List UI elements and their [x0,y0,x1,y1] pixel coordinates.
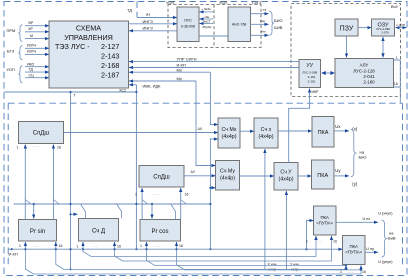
wire ИКР [289,89,319,163]
wire СЦ [25,77,49,79]
svg-text:(ВуЗн): (ВуЗн) [203,25,212,29]
wire ТД [25,71,49,73]
svg-text:АЛУ: АЛУ [360,63,369,68]
wire Т branch into Сч Д left [71,213,78,215]
wire АЛУ to ОЗУ [382,37,384,58]
UOP dashed box (top middle) [168,5,261,48]
svg-text:БИВ: БИВ [274,25,283,30]
wire ИЗГН 2 [25,53,49,55]
svg-text:Хин: Хин [260,19,266,23]
svg-text:2-162: 2-162 [308,75,316,79]
svg-text:1: 1 [19,244,21,248]
svg-text:(4х4р): (4х4р) [220,176,235,182]
svg-text:Ux: Ux [335,124,341,129]
svg-text:СхГЗ: СхГЗ [252,0,262,5]
svg-text:Уин: Уин [261,30,266,34]
svg-text:. . . .: . . . . [152,192,159,196]
СпДш1 pin labels [17,144,61,150]
ПКА ПУПА 2 pin labels [340,269,366,274]
lower section dashed frame [8,103,402,268]
node ТД top feedback [127,2,137,18]
bus joins from Pr cos pins [147,249,347,265]
svg-text:БГЗ: БГЗ [7,48,15,53]
svg-text:«ПУПА»: «ПУПА» [345,250,362,255]
block ПКА 1 [312,117,334,148]
svg-text:2-168: 2-168 [101,61,119,70]
Pr sin bottom pins from И КП [19,242,62,250]
svg-text:ЛУС-2-098: ЛУС-2-098 [302,71,317,75]
svg-text:U (хнул): U (хнул) [378,212,393,216]
bus track from Pr sin pin1 to ПКА ПУПА2 pin16 [25,249,361,274]
svg-text:16: 16 [179,244,183,248]
АЛУ right pins 1..16 [394,56,401,103]
node У нач коор [290,263,300,272]
wire ΔХ [64,127,219,133]
wire ПЗУ to ОЗУ [358,27,372,29]
wire ΔУ [184,170,216,176]
svg-text:(4х4р): (4х4р) [221,134,236,140]
svg-text:16: 16 [362,270,366,274]
wire Pr cos to СпДш2 pin1 [141,188,143,220]
svg-text:БИО: БИО [274,18,283,23]
svg-text:Pr cos: Pr cos [151,229,168,235]
svg-text:(4х4р): (4х4р) [258,134,273,140]
wire И КП bottom line [8,248,342,256]
wire И КП [129,62,299,67]
wire bus to Pr sin top [33,204,35,219]
wire diagonal joins from СпДш1 risers [25,200,31,205]
block ПКА 2 [312,160,335,189]
wire riser to Сч Мх and Сч Му [210,139,218,249]
svg-text:БиО: БиО [359,155,367,160]
svg-text:2-180: 2-180 [363,80,375,85]
wire Мх vertical to Сч Мх [210,72,218,124]
svg-text:2-143: 2-143 [101,52,119,61]
Pr cos bottom pins from И КП [140,242,183,250]
svg-text:ΔУ: ΔУ [191,170,196,174]
wire Сч Мх to Сч х [240,130,254,132]
bus track from Сч Д pin1 to ПКА ПУПА1 pin1 [83,236,316,257]
svg-text:У нач.: У нач. [290,263,300,267]
wire Мх [129,67,210,72]
svg-text:U пх: U пх [363,217,371,221]
wire Сч у to ПКА 2 [298,175,312,177]
wire ИЗГН 1 [25,47,49,49]
wire to ПКА ПУПА 1 [307,221,314,250]
svg-text:16: 16 [333,240,337,244]
block ПКА ПУПА 2 [343,236,366,265]
wire ВР [25,25,49,27]
svg-text:ЛУС-2-128: ЛУС-2-128 [353,69,375,74]
svg-text:1: 1 [77,245,79,249]
svg-text:. . .: . . . [348,269,353,273]
svg-text:М: М [30,34,33,38]
svg-text:+ №Зн: + №Зн [202,7,212,11]
svg-text:Мх: Мх [177,67,182,72]
wire УПР.СИГН [129,56,299,61]
Сч Д bottom pins from И КП [77,242,121,250]
wire Uy [334,168,358,186]
svg-text:УОП: УОП [7,67,16,72]
wire Т [70,92,77,270]
svg-text:. . . .: . . . . [32,144,39,148]
svg-text:ПРМ: ПРМ [7,28,16,33]
svg-text:ТД: ТД [127,8,132,13]
svg-text:ИНГЗ: ИНГЗ [143,19,154,24]
wire Pr cos top diagonal entry [171,204,176,219]
svg-text:U (унул): U (унул) [378,260,393,264]
block ОЗУ [372,19,395,36]
svg-text:ПКА: ПКА [317,173,328,179]
svg-text:1: 1 [17,146,19,150]
svg-text:УПРАВЛЕНИЯ: УПРАВЛЕНИЯ [64,33,113,42]
block СХЕМА УПРАВЛЕНИЯ [49,21,129,88]
svg-text:(у): (у) [352,181,358,186]
svg-text:«ПУПА»: «ПУПА» [316,221,333,226]
svg-text:Т: Т [74,94,77,98]
svg-text:УОП: УОП [219,0,228,5]
block СпДш 1 [19,122,64,144]
svg-text:2-162: 2-162 [308,80,316,84]
UOP internal dashed divider [213,5,215,48]
svg-text:СЦ: СЦ [29,73,35,77]
svg-text:U пу: U пу [366,247,374,251]
svg-text:АНС-768: АНС-768 [232,23,246,27]
block Сч Му [216,161,240,191]
wire Му vertical to Сч Му [196,81,216,166]
wire к УОП [396,23,407,28]
svg-text:из: из [146,12,150,17]
wire U пх [336,212,393,223]
ПКА ПУПА 1 pin labels [306,239,337,244]
wire ЛУС-АНС bottom [199,35,228,37]
svg-text:2-187: 2-187 [101,71,119,80]
svg-text:16: 16 [117,245,121,249]
node БГЗ inputs [7,44,49,60]
block АНС-768 [228,7,251,42]
svg-text:Х нач.: Х нач. [268,263,278,267]
node УОП inputs [7,62,50,82]
brace на БиО [351,129,367,177]
block ЛУС [177,7,199,42]
svg-text:И КП: И КП [9,252,18,257]
wire из [137,12,177,18]
svg-text:2-041: 2-041 [363,74,375,79]
svg-text:СпДш: СпДш [33,131,50,137]
svg-text:ИЗГН: ИЗГН [27,50,37,54]
wire ИВК ИДК [129,84,161,251]
block СпДш 2 [139,166,184,188]
svg-text:0-36-008: 0-36-008 [181,25,195,29]
svg-text:16: 16 [185,193,189,197]
block УУ [299,60,321,88]
svg-text:1: 1 [140,244,142,248]
svg-text:Uy: Uy [335,168,341,173]
wire horizontal bus line [14,203,212,205]
wire Х нач to Сч х [264,149,266,270]
wire Pr sin to СпДш1 pin1 [24,145,26,220]
node Х нач коор [268,263,278,272]
svg-text:. . .: . . . [92,244,97,248]
svg-text:БиВ: БиВ [388,236,396,241]
wire Сч Му to Сч у [240,175,275,177]
svg-text:УОП: УОП [166,0,175,5]
svg-text:2-079: 2-079 [381,31,389,35]
wire ИКО [25,66,49,68]
svg-text:Сч Д: Сч Д [92,229,105,235]
svg-text:ПКА: ПКА [318,130,329,136]
wire U пу [365,247,393,264]
svg-text:к УОП: к УОП [397,23,405,27]
block ПЗУ [335,19,358,36]
svg-text:Сч Мх: Сч Мх [221,127,236,133]
block Сч х [254,118,278,148]
svg-text:ЛУС: ЛУС [184,18,192,23]
svg-text:ВР: ВР [29,21,34,25]
wire М [25,38,49,40]
VchU dashed box (top right) [291,4,401,97]
wire У нач to Сч у [285,191,287,270]
svg-text:Му: Му [177,76,182,81]
wires АНС to ЛУС [199,7,228,36]
node ПРМ inputs [7,21,50,42]
wire Pr sin to СпДш1 pin16 [52,145,54,220]
svg-text:. . .: . . . [33,244,38,248]
svg-text:ВчУ: ВчУ [391,4,399,9]
svg-text:. . .: . . . [318,239,323,243]
СпДш2 pin labels [135,192,188,197]
svg-text:ΔХ: ΔХ [198,127,203,131]
svg-text:16: 16 [394,82,398,86]
svg-text:ИЗГН: ИЗГН [27,44,37,48]
wire ИНГЗ to ЛУС [129,19,177,24]
svg-text:КР: КР [29,27,34,31]
bus track from Сч Д pin16 to ПКА ПУПА1 pin16 [115,236,332,261]
block Сч Д [79,219,119,242]
wire service line y92 [4,91,136,93]
svg-text:. . .: . . . [155,244,160,248]
svg-text:ИНГЗ: ИНГЗ [143,25,154,30]
svg-text:1: 1 [306,240,308,244]
brace на БиВ [382,220,396,257]
block Pr cos [140,220,181,242]
bus track from Pr sin pin16 to ПКА ПУПА2 pin1 [56,249,346,269]
block Сч Мх [218,118,240,148]
wire ПЗУ to АЛУ [346,36,348,58]
brace БИО БИВ [269,11,273,35]
svg-text:1: 1 [396,56,398,60]
wire УУ-АЛУ bidirectional [321,71,335,75]
wire Сч Д top entries [81,204,86,219]
svg-text:Сч Му: Сч Му [220,169,235,175]
wire Сч х to ПКА 1 [278,130,312,132]
svg-text:УУ: УУ [306,63,313,69]
svg-text:СХЕМА: СХЕМА [76,23,101,32]
svg-text:ИВК, ИДК: ИВК, ИДК [143,84,162,89]
svg-text:УПР СИГН: УПР СИГН [177,56,197,61]
block Pr sin [19,220,57,242]
wire ИНГЗ from ЛУС [129,25,177,31]
wire Ux [334,124,358,131]
wires АНС outputs ГЗ Хин Уин [251,8,283,35]
svg-text:ИКО: ИКО [27,62,35,66]
svg-text:ТЭЗ ЛУС -: ТЭЗ ЛУС - [55,42,90,51]
svg-text:1: 1 [135,193,137,197]
svg-text:ИКР: ИКР [312,90,320,94]
block Сч у [274,163,298,191]
svg-text:Сч У: Сч У [280,170,292,176]
wire Pr cos to СпДш2 pin16 [180,188,182,220]
svg-text:ПКА: ПКА [320,215,329,220]
svg-text:Сч х: Сч х [261,127,272,133]
svg-text:16: 16 [59,244,63,248]
wire Му [129,76,196,81]
svg-text:16: 16 [57,146,61,150]
svg-text:ПЗУ: ПЗУ [340,25,354,32]
svg-text:ПКА: ПКА [349,244,358,249]
svg-text:1: 1 [340,270,342,274]
block ПКА ПУПА 1 [314,206,337,235]
svg-text:ГЗ: ГЗ [263,8,267,12]
svg-text:.: . [396,75,397,79]
svg-text:(4х4р): (4х4р) [278,177,293,183]
svg-text:Pr sin: Pr sin [30,229,45,235]
wire bus to Pr cos top [151,204,153,219]
wire diagonal joins from СпДш2 risers [142,200,148,205]
svg-text:2-127: 2-127 [101,42,119,51]
block АЛУ [335,59,394,88]
svg-text:СпДш: СпДш [153,175,170,181]
wire КР [25,31,49,33]
svg-text:ЧиСТ: ЧиСТ [203,19,211,23]
svg-text:ТД: ТД [29,68,34,72]
